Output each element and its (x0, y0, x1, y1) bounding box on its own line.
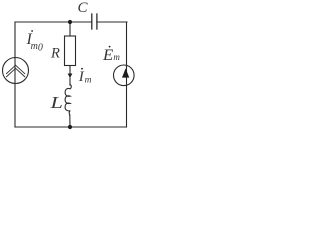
capacitor C plates (92, 14, 97, 29)
svg-text:m: m (85, 76, 92, 86)
current source U1 circle (3, 58, 29, 84)
emf source triangle arrow (122, 68, 129, 77)
wire middle branch upper (69, 22, 71, 36)
emf source E circle (114, 65, 135, 86)
wire arrow shaft (69, 66, 71, 75)
junction node top (68, 20, 72, 24)
svg-text:L: L (49, 93, 63, 112)
current source double arrow chevrons (7, 65, 25, 77)
svg-text:C: C (78, 0, 89, 16)
svg-text:m: m (113, 52, 120, 62)
wire top right segment (97, 21, 127, 23)
inductor L coil (65, 85, 71, 116)
wire right side (126, 22, 128, 127)
wire left side (14, 22, 16, 127)
svg-text:m0: m0 (31, 41, 43, 54)
svg-text:E: E (102, 47, 113, 64)
wire below coil (69, 115, 71, 127)
wire bottom (15, 126, 127, 128)
wire top left segment (15, 21, 92, 23)
junction node bottom (68, 125, 72, 129)
svg-text:R: R (50, 46, 60, 62)
wire below arrow (69, 78, 71, 85)
wire through current source (14, 58, 16, 84)
arrowhead of current Im (68, 74, 73, 79)
resistor R body (65, 36, 76, 66)
wire through emf source (126, 65, 128, 85)
